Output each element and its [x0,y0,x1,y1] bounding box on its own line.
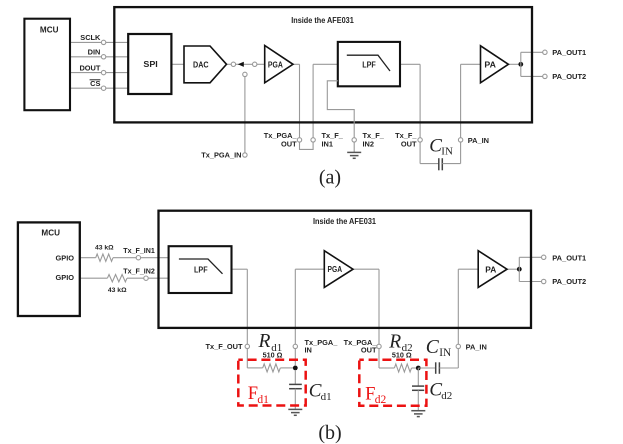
svg-text:Inside the AFE031: Inside the AFE031 [291,16,354,25]
svg-text:Tx_PGA_IN: Tx_PGA_IN [201,151,241,160]
svg-text:d2: d2 [375,394,387,406]
svg-text:MCU: MCU [41,229,60,238]
svg-text:PA_IN: PA_IN [468,136,489,145]
svg-text:OUT: OUT [281,139,297,148]
svg-text:d1: d1 [257,394,269,406]
svg-text:Inside the AFE031: Inside the AFE031 [313,217,377,226]
svg-text:PGA: PGA [268,60,283,69]
svg-text:PGA: PGA [328,265,343,274]
svg-text:Tx_F_OUT: Tx_F_OUT [206,342,243,351]
svg-text:IN2: IN2 [363,139,375,148]
svg-text:PA_OUT1: PA_OUT1 [552,253,586,262]
svg-text:PA_OUT1: PA_OUT1 [552,48,586,57]
svg-text:510 Ω: 510 Ω [263,351,283,360]
svg-text:PA_OUT2: PA_OUT2 [552,72,586,81]
svg-text:IN1: IN1 [322,139,334,148]
svg-text:d1: d1 [321,391,332,403]
svg-text:SCLK: SCLK [80,33,101,42]
svg-text:43 kΩ: 43 kΩ [95,244,114,251]
svg-text:R: R [388,332,401,353]
svg-text:(a): (a) [319,167,341,189]
svg-text:IN: IN [439,347,451,359]
svg-text:GPIO: GPIO [56,273,75,282]
svg-text:LPF: LPF [194,265,208,274]
svg-text:R: R [258,331,271,352]
svg-text:DOUT: DOUT [79,63,100,72]
svg-text:OUT: OUT [401,139,417,148]
svg-text:DAC: DAC [193,61,209,70]
svg-text:C: C [426,337,440,358]
svg-text:Tx_F_IN1: Tx_F_IN1 [123,246,155,255]
svg-text:43 kΩ: 43 kΩ [108,287,127,294]
svg-text:Tx_F_IN2: Tx_F_IN2 [123,267,155,276]
svg-text:CS: CS [90,79,100,88]
svg-text:MCU: MCU [40,26,59,35]
svg-text:IN: IN [305,346,312,355]
svg-text:PA_IN: PA_IN [466,343,487,352]
svg-text:(b): (b) [318,422,341,444]
svg-text:SPI: SPI [143,60,157,69]
svg-text:OUT: OUT [361,346,377,355]
svg-text:IN: IN [441,146,453,158]
svg-text:510 Ω: 510 Ω [392,351,412,360]
svg-text:PA: PA [485,265,496,274]
svg-text:GPIO: GPIO [56,253,75,262]
svg-text:DIN: DIN [88,48,101,57]
svg-text:d2: d2 [441,390,452,402]
svg-text:LPF: LPF [362,61,376,70]
svg-text:PA_OUT2: PA_OUT2 [552,277,586,286]
svg-text:PA: PA [484,60,496,69]
